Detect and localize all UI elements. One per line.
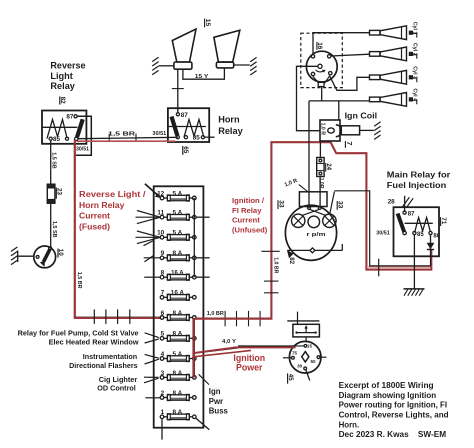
ground (right horn) [250, 57, 256, 75]
tachometer : bottom chord wire with connector [287, 244, 342, 258]
svg-text:16 A: 16 A [171, 290, 185, 297]
fuse 4 (5 A) in fuse box [160, 351, 196, 362]
svg-text:Reverse: Reverse [50, 60, 85, 70]
svg-text:Horn: Horn [218, 115, 240, 125]
tachometer : component number 33 left (rotated) [277, 200, 284, 209]
wire : battery feed above ignition switch [287, 320, 319, 322]
wire : backup switch to ground [18, 255, 34, 257]
fuse 1 (8 A) in fuse box [160, 409, 196, 420]
reverse light relay : pin 87 [66, 114, 77, 121]
ignition switch : actuator line [306, 370, 310, 381]
svg-text:10: 10 [57, 249, 64, 256]
svg-text:5 A: 5 A [173, 230, 183, 237]
svg-text:Buss: Buss [209, 407, 229, 416]
tachometer : center element [308, 216, 320, 228]
fuse 8 (16 A) in fuse box [160, 270, 196, 281]
fuse box : right stub fuse 9 [196, 257, 210, 259]
red text : Reverse Light / Horn Relay Current (Fused) [79, 189, 146, 232]
label : Ign Pwr Buss with leader [199, 374, 229, 415]
wire : coil to ground [360, 129, 374, 131]
wire : ballast down to tach [319, 177, 321, 208]
spark plug Cyl 1 [370, 22, 418, 40]
svg-text:1,0 BR: 1,0 BR [273, 257, 279, 273]
caption text block [339, 381, 449, 439]
svg-text:28: 28 [388, 198, 395, 205]
fuse box : wire fan at fuse 10 [136, 231, 161, 246]
svg-text:Diagram showing Ignition: Diagram showing Ignition [339, 391, 437, 400]
svg-text:Pwr: Pwr [209, 397, 223, 406]
svg-text:50: 50 [311, 359, 317, 364]
wire label 1,0 R with leader [284, 178, 308, 192]
svg-text:Ignition: Ignition [233, 353, 265, 363]
red text : Ignition / FI Relay Current (Unfused) [232, 196, 268, 234]
ignition coil : body [320, 120, 360, 141]
svg-text:Cyl 1: Cyl 1 [411, 22, 417, 35]
ignition switch : terminal 50 [311, 356, 327, 364]
svg-text:24: 24 [325, 163, 332, 170]
ticks on red vertical 1,0 BR [261, 251, 279, 292]
fuse box : arrow into fuse 12 [145, 184, 161, 198]
wire : coil HT to distributor center [297, 66, 321, 130]
wire : link between horns, 1,5 Y [183, 68, 225, 80]
fuse box : diagonal wire from fuse 1 right [196, 418, 209, 430]
svg-text:4,0 Y: 4,0 Y [222, 339, 236, 345]
horn relay : component number 65 (rotated) [182, 146, 189, 155]
label : fuse 5 circuits [18, 328, 139, 392]
svg-text:Cyl 3: Cyl 3 [411, 66, 417, 79]
svg-text:8 A: 8 A [173, 331, 183, 338]
red highlight : fused relay current along 1,5 BR wire [77, 140, 176, 142]
ignition switch : terminal 75 [283, 350, 298, 359]
svg-text:r p/m: r p/m [307, 232, 326, 238]
fuse box : left leaders at fuse 5 [145, 333, 159, 343]
wire : stub down to ignition switch contact box [297, 312, 299, 325]
svg-text:Instrumentation: Instrumentation [83, 352, 138, 361]
red highlight : ignition power 4,0 Y [194, 347, 295, 357]
svg-text:Power routing for Ignition, FI: Power routing for Ignition, FI [339, 401, 448, 410]
svg-text:Dec 2023 R. Kwas SW-EM: Dec 2023 R. Kwas SW-EM [339, 430, 447, 439]
fuse box : right bus rail fuses 12-8 [193, 198, 195, 277]
svg-text:(Fused): (Fused) [79, 222, 110, 232]
svg-text:30/51: 30/51 [152, 131, 166, 137]
svg-text:Current: Current [79, 211, 110, 221]
tachometer : left lamp [292, 214, 305, 227]
red highlight : second line of doubled segment [368, 266, 430, 268]
spark plug Cyl 2 [370, 43, 418, 61]
svg-text:82: 82 [288, 257, 295, 264]
tachometer : crossed internal wires [302, 209, 326, 215]
svg-text:Current: Current [232, 216, 260, 225]
fuse 3 (8 A) in fuse box [160, 370, 196, 381]
svg-text:OD Control: OD Control [97, 383, 136, 392]
svg-text:30/51: 30/51 [76, 147, 89, 153]
distributor : rotor center + arrow [316, 64, 326, 72]
svg-text:8 A: 8 A [173, 310, 183, 317]
fuse 12 (5 A) in fuse box [157, 190, 196, 201]
wire : points to coil terminal 1 and tach [309, 76, 339, 208]
svg-text:Cyl 4: Cyl 4 [411, 88, 417, 101]
svg-text:1,5 BR: 1,5 BR [108, 132, 135, 138]
svg-text:1,5 SB: 1,5 SB [51, 152, 57, 169]
ground (backup light switch) [11, 247, 18, 265]
ignition switch 45 : body circle [289, 341, 321, 373]
reverse light relay : pin 85 [49, 136, 60, 143]
svg-text:1,0 BR: 1,0 BR [207, 311, 224, 317]
distributor : component number 16 (rotated) [316, 42, 323, 50]
svg-text:87: 87 [66, 114, 74, 121]
fuse box : right stub fuse 8 [196, 276, 210, 278]
fuse 11 (5 A) in fuse box [157, 210, 196, 221]
svg-text:75: 75 [292, 350, 298, 355]
distributor : dashed enclosure [301, 33, 343, 87]
fuse box : right stub fuse 11 [196, 216, 210, 218]
svg-text:15 Y: 15 Y [195, 74, 209, 80]
ignition switch : terminal 30 [297, 364, 307, 370]
svg-text:Cyl 2: Cyl 2 [411, 43, 417, 56]
svg-text:5 A: 5 A [173, 210, 183, 217]
tachometer : input terminals [308, 206, 322, 209]
fuse 5 (8 A) in fuse box [160, 331, 196, 342]
svg-text:16 A: 16 A [171, 270, 184, 277]
svg-text:85: 85 [193, 135, 201, 142]
svg-text:Elec Heated Rear Window: Elec Heated Rear Window [49, 337, 139, 346]
ignition coil : component number 7 (rotated) [345, 141, 354, 148]
main relay : feed wire from component 28 [388, 196, 413, 212]
fuse box : left stub at fuse 2 [145, 397, 160, 399]
svg-text:33: 33 [277, 200, 284, 208]
reverse light relay K1 : coil box [42, 111, 86, 144]
ignition switch : terminal 15 [304, 344, 312, 349]
svg-text:8 A: 8 A [173, 370, 183, 377]
svg-text:82: 82 [59, 97, 66, 105]
wire : distributor to Cyl 3 plug [329, 76, 369, 91]
horn relay : right stub wire [205, 136, 215, 138]
svg-text:5 A: 5 A [173, 190, 183, 197]
svg-text:65: 65 [182, 146, 189, 154]
fuse 7 (16 A) in fuse box [160, 290, 196, 301]
main relay : component number 71 (rotated) [440, 217, 447, 226]
svg-text:FI Relay: FI Relay [232, 206, 262, 215]
ign pwr buss : red highlight rail [192, 319, 194, 378]
horn relay K2 : box [168, 108, 209, 142]
ignition switch : start contact box [293, 324, 320, 337]
reverse light relay : pin 30/51 junction [75, 137, 90, 152]
svg-text:1,5 BR: 1,5 BR [76, 272, 82, 289]
fuse box : wire fan at fuse 11 [136, 211, 161, 224]
tachometer : right lamp [323, 214, 336, 227]
svg-text:33: 33 [337, 201, 344, 209]
fuse box : left stub + slash at fuse 9 [144, 255, 160, 262]
wire 1,5 SB : fuse to backup light switch [51, 203, 57, 247]
svg-text:Relay: Relay [50, 81, 75, 91]
svg-text:5 A: 5 A [173, 351, 183, 358]
wire 1,5 BR : reverse relay 30/51 to horn relay 30/51 [78, 132, 178, 142]
reverse light relay : component number 82 (rotated) [59, 96, 66, 104]
svg-text:Horn Relay: Horn Relay [79, 200, 125, 210]
wire : distributor to Cyl 4 plug [309, 100, 370, 102]
wire : distributor to Cyl 2 plug [331, 54, 370, 56]
svg-text:Light: Light [50, 71, 72, 81]
fuse box : outline [154, 186, 204, 427]
svg-text:Ignition /: Ignition / [232, 196, 265, 205]
svg-text:Directional Flashers: Directional Flashers [69, 361, 138, 370]
reverse light relay : coil right terminal [65, 137, 68, 140]
wire : left horn to ground [159, 65, 174, 67]
svg-text:Main Relay for: Main Relay for [387, 170, 451, 180]
main relay K3 : box [394, 207, 440, 256]
main relay : pin 87 [403, 211, 415, 217]
distributor : tower terminals [311, 55, 332, 76]
ballast resistor 24 [317, 158, 332, 189]
svg-text:30/51: 30/51 [376, 230, 390, 236]
horn relay : contact arm (thick bar) [172, 117, 178, 136]
wire 1,0 BR : fuse 6 right toward ignition switch [196, 311, 271, 326]
ground (left horn) [152, 57, 158, 75]
svg-text:8 A: 8 A [173, 390, 183, 397]
svg-text:1,0R: 1,0R [318, 178, 324, 189]
svg-text:Control, Reverse Lights, and: Control, Reverse Lights, and [339, 411, 449, 420]
fuse box : left leaders at fuse 4 [145, 354, 159, 364]
svg-text:30: 30 [297, 364, 303, 369]
fuse 6 (8 A) in fuse box [160, 310, 196, 321]
reverse light relay : contact arm (thick bar) [77, 119, 83, 137]
wire : contact box to switch body [305, 337, 307, 342]
fuse box : left stub at fuse 8 [144, 276, 160, 278]
wire : main relay pin 85 to ground [413, 235, 415, 289]
fuse 10 (5 A) in fuse box [157, 230, 196, 241]
ground (ignition coil) [374, 122, 380, 140]
ignition switch : key rotor (diamond) [302, 352, 309, 362]
fuse 9 (8 A) in fuse box [160, 250, 196, 261]
svg-text:86: 86 [433, 233, 440, 239]
svg-text:Ign: Ign [209, 387, 221, 396]
svg-text:85: 85 [53, 136, 61, 143]
fuse box : left leaders at fuse 3 [144, 377, 159, 383]
svg-text:Horn.: Horn. [339, 420, 360, 429]
wire : coil 15 down to ballast resistor [319, 141, 321, 158]
fuse 2 (8 A) in fuse box [160, 390, 196, 401]
reverse light relay : contact box (offset) [76, 116, 92, 155]
red highlight : unfused ignition/FI current path [195, 142, 432, 319]
backup light switch (10) [34, 246, 64, 268]
horn relay : bottom terminals [176, 135, 204, 142]
wire 4,0 Y : ign pwr buss to switch terminal 15 [194, 339, 304, 353]
wire : right horn to ground [234, 64, 250, 66]
svg-text:23: 23 [56, 188, 63, 195]
svg-text:87: 87 [181, 112, 189, 119]
main relay : contact arm (thick bar) [398, 214, 407, 235]
reverse light relay : label text [50, 60, 85, 91]
ground (main relay) [404, 289, 425, 296]
tachometer : component number 33 right (rotated) [337, 201, 344, 210]
main relay : pin 86 [429, 231, 441, 239]
main relay : label text [387, 170, 451, 190]
distributor : cap circle [306, 51, 337, 82]
svg-text:Reverse Light /: Reverse Light / [79, 189, 146, 199]
svg-text:45: 45 [287, 374, 294, 381]
svg-text:87: 87 [408, 211, 415, 217]
ignition switch : component number 45 (rotated) [287, 373, 294, 383]
tachometer : dial circle [285, 205, 336, 260]
svg-text:15: 15 [307, 344, 313, 349]
inline fuse 23 [47, 184, 62, 203]
svg-text:16: 16 [316, 42, 323, 50]
wire : horns down to horn relay pin 87 [172, 69, 184, 113]
wire : tach right lamp to main relay coil [330, 191, 431, 276]
right horn [214, 30, 240, 68]
svg-text:1,5 SB: 1,5 SB [51, 221, 57, 238]
svg-text:Fuel Injection: Fuel Injection [387, 180, 447, 190]
horn relay : pin 87 [176, 112, 188, 119]
svg-text:8 A: 8 A [173, 250, 183, 257]
wire + red highlight : to fuse 6 left terminal [75, 309, 160, 324]
svg-text:Relay: Relay [218, 126, 243, 136]
fuse box : wire down from fuse 1 left [161, 419, 163, 440]
wire 1,5 SB : relay pin 85 down to inline fuse [51, 140, 57, 184]
ign pwr buss : black rail fuses 6-3 [193, 318, 195, 377]
svg-text:(Unfused): (Unfused) [232, 225, 268, 234]
spark plug Cyl 3 [370, 66, 418, 84]
svg-text:85: 85 [417, 232, 424, 238]
svg-text:7: 7 [345, 141, 354, 145]
node label 15 (rotated, above horns) [204, 19, 211, 28]
wire : distributor to Cyl 1 plug [313, 33, 370, 55]
main relay : pin 85 [413, 231, 425, 238]
svg-text:Excerpt of 1800E Wiring: Excerpt of 1800E Wiring [339, 381, 434, 390]
svg-text:71: 71 [440, 217, 447, 224]
svg-text:1,0 R: 1,0 R [320, 123, 326, 136]
spark plug Cyl 4 [370, 88, 418, 106]
distributor : points terminal (small square) [318, 82, 324, 86]
svg-text:Ign Coil: Ign Coil [345, 111, 378, 121]
horn relay : label text [218, 115, 243, 136]
svg-text:Relay for Fuel Pump, Cold St V: Relay for Fuel Pump, Cold St Valve [18, 328, 139, 337]
svg-text:1,0 R: 1,0 R [284, 178, 299, 188]
svg-text:8 A: 8 A [173, 409, 183, 416]
svg-text:Power: Power [236, 362, 263, 372]
left horn [172, 29, 196, 69]
red text : Ignition Power [233, 353, 265, 373]
red highlight : reverse/horn relay fused current, vertical 1,5 BR [75, 140, 82, 319]
svg-text:15: 15 [204, 19, 211, 27]
tachometer : housing [299, 192, 327, 207]
main relay : diode on pin 86 branch [427, 235, 435, 257]
